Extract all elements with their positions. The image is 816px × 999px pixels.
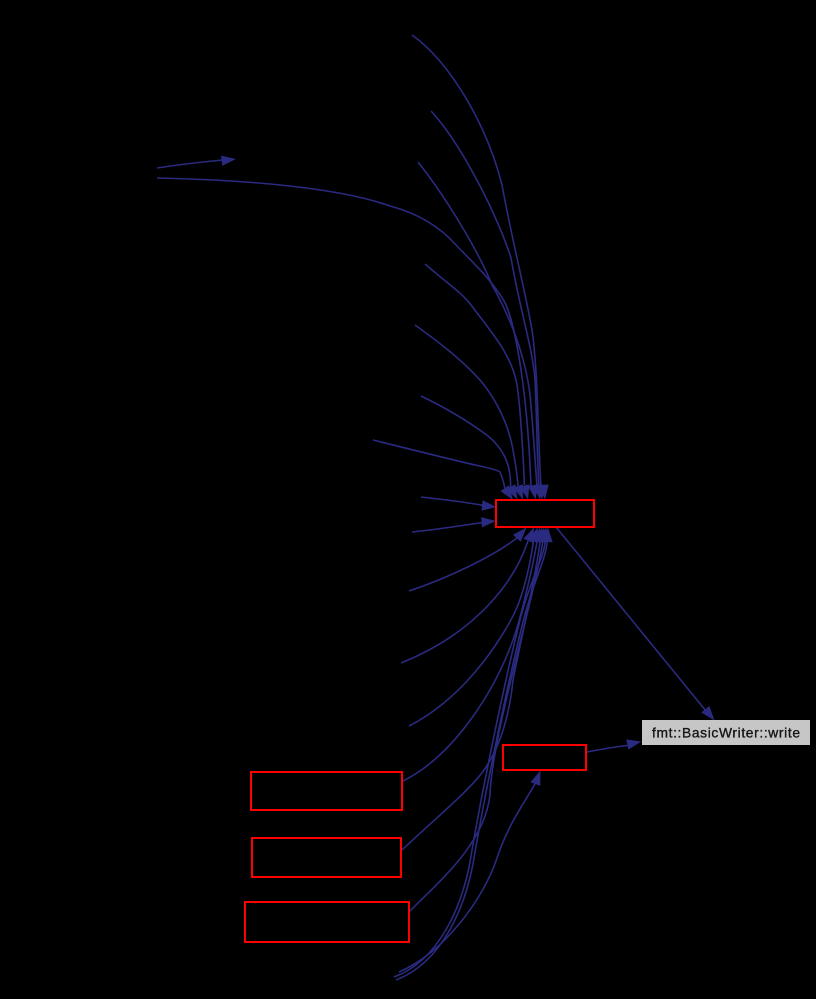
edge node12 -> node13 bbox=[587, 739, 642, 752]
node11 box (red truncated node) bbox=[245, 902, 409, 942]
edge caller10 -> node14 bbox=[412, 517, 496, 532]
node10 box (red truncated node) bbox=[252, 838, 401, 877]
edge node9 -> node14 bbox=[403, 528, 542, 782]
node9 box (red truncated node) bbox=[251, 772, 402, 810]
edge caller9 -> node14 bbox=[421, 497, 497, 511]
edge caller12 -> node14 bbox=[401, 528, 534, 664]
edge caller11 -> node14 bbox=[409, 528, 527, 592]
edge caller2 -> node14 bbox=[431, 111, 545, 500]
edge caller14c -> node12 bbox=[399, 771, 541, 973]
node12 box (red truncated node) bbox=[503, 745, 586, 770]
svg-text:fmt::BasicWriter::write: fmt::BasicWriter::write bbox=[652, 726, 800, 741]
edge caller4 -> node5 bbox=[157, 156, 236, 168]
edge caller6 -> node14 bbox=[415, 325, 523, 500]
edge node11 -> node14 bbox=[409, 528, 548, 913]
edge caller14b -> node14 bbox=[396, 528, 553, 981]
edge caller7 -> node14 bbox=[421, 396, 518, 500]
node14 box (current graph node, red border) bbox=[496, 500, 594, 527]
edge caller5 -> node14 bbox=[425, 264, 530, 500]
edge caller3 -> node14 bbox=[418, 162, 543, 500]
node13 box fmt::BasicWriter::write bbox=[643, 721, 810, 745]
edge caller8 -> node14 bbox=[373, 440, 513, 500]
edge caller4 -> node14 bbox=[157, 178, 538, 500]
edge caller13 -> node14 bbox=[409, 528, 538, 727]
edge caller14a -> node14 bbox=[394, 528, 550, 978]
edge node14 -> node13 bbox=[556, 527, 715, 721]
edge caller1 -> node14 bbox=[412, 35, 549, 500]
edge node10 -> node14 bbox=[402, 528, 545, 851]
